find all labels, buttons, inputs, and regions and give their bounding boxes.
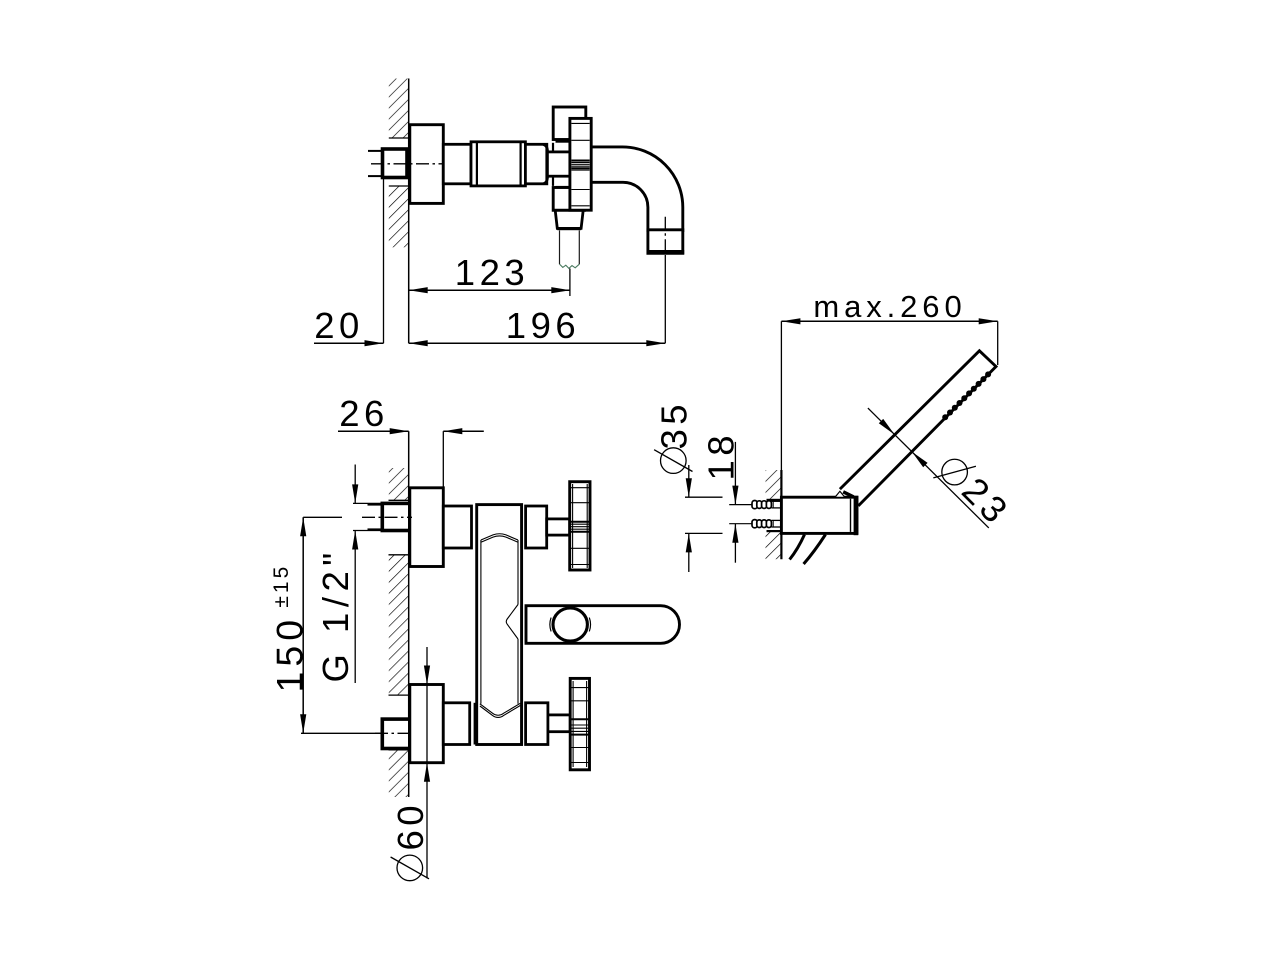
screw bottom bbox=[729, 520, 782, 528]
disc detail lines bbox=[571, 123, 589, 205]
dimension D35 lines bbox=[688, 465, 690, 497]
wall hole boundary lines bbox=[389, 137, 409, 139]
svg-text:18: 18 bbox=[701, 431, 742, 481]
bottom left connector bbox=[443, 703, 469, 745]
dimension max.260 line bbox=[781, 320, 997, 322]
dimension D60 text bbox=[391, 855, 429, 881]
screw top bbox=[729, 501, 782, 509]
body section A bbox=[443, 144, 471, 184]
tube break line bbox=[560, 264, 580, 268]
svg-text:23: 23 bbox=[954, 470, 1018, 534]
G 1/2 leader upper bbox=[354, 465, 356, 504]
bottom valve stem bbox=[548, 715, 570, 732]
top inlet centerline bbox=[362, 516, 412, 518]
top left connector bbox=[443, 506, 471, 548]
holder block bbox=[781, 497, 857, 533]
dimension 123 line bbox=[409, 289, 571, 291]
wall hatch band lower bbox=[766, 531, 782, 559]
dimension 18 lines bbox=[734, 442, 736, 505]
handshower cylinder bbox=[840, 351, 996, 506]
top union nut bbox=[382, 503, 410, 530]
spout end cap bbox=[648, 230, 683, 254]
dimension 26 bbox=[338, 430, 409, 432]
dimension 20 line bbox=[314, 342, 384, 344]
handle front disc bbox=[570, 118, 591, 210]
diverter pull tube bbox=[559, 230, 561, 264]
top valve stem bbox=[547, 519, 570, 535]
svg-text:20: 20 bbox=[314, 305, 364, 346]
shadow band upper bbox=[556, 139, 570, 142]
wall surface line bbox=[408, 431, 410, 797]
svg-text:max.260: max.260 bbox=[813, 289, 966, 324]
body section C bbox=[525, 144, 546, 184]
shadow band lower bbox=[556, 186, 570, 189]
wall hole boundary lines bbox=[767, 499, 782, 501]
wall surface line bbox=[408, 79, 410, 344]
diverter extension line bbox=[569, 269, 571, 297]
dimension D35 text bbox=[654, 448, 692, 474]
neck lines bbox=[552, 143, 554, 152]
svg-text:60: 60 bbox=[390, 801, 431, 851]
svg-text:196: 196 bbox=[506, 305, 580, 346]
faucet centerline bbox=[371, 163, 444, 165]
extension line from union nut bbox=[383, 178, 385, 344]
svg-text:G 1/2": G 1/2" bbox=[315, 547, 356, 682]
bottom handle bar bbox=[570, 678, 589, 769]
spray nozzle dots bbox=[942, 371, 991, 420]
wall flange bbox=[410, 125, 444, 204]
top handle bar bbox=[570, 482, 590, 570]
spout centerline bbox=[664, 217, 666, 255]
wall hatch band 2 bbox=[389, 555, 409, 695]
svg-text:123: 123 bbox=[455, 252, 529, 293]
max.260 extension lines bbox=[780, 321, 782, 470]
lever knob circle bbox=[553, 608, 587, 641]
lever ring thin circle bbox=[550, 618, 591, 632]
handshower end cap peek triangle bbox=[835, 491, 844, 497]
junction wedge bbox=[843, 492, 853, 497]
bottom inlet centerline bbox=[375, 732, 412, 734]
body inner contour bbox=[480, 534, 521, 718]
top wall flange bbox=[410, 488, 444, 567]
wall hatch band 1 bbox=[389, 468, 409, 500]
wall hatch upper band bbox=[389, 79, 409, 139]
body bbox=[477, 505, 522, 745]
svg-text:150±15: 150±15 bbox=[269, 564, 311, 693]
spout extension line bbox=[664, 255, 666, 343]
union nut bbox=[383, 149, 408, 178]
wall hatch band 3 bbox=[389, 750, 409, 797]
hose outer arc bbox=[790, 535, 805, 560]
top inlet pipe stub bbox=[368, 504, 384, 506]
inlet pipe stub bbox=[368, 150, 383, 152]
bottom wall flange bbox=[410, 685, 444, 763]
dimension 150 line bbox=[302, 517, 304, 733]
handle bottom arm bbox=[553, 188, 584, 211]
hose inner arc bbox=[804, 535, 826, 565]
wall hatch lower band bbox=[389, 186, 409, 247]
dimension 150 extension lines bbox=[303, 516, 342, 518]
holder front face double line bbox=[854, 496, 859, 535]
body section B (cartridge) bbox=[471, 142, 525, 186]
valve hub bbox=[547, 152, 570, 176]
top right connector bbox=[526, 506, 547, 548]
spout bbox=[591, 147, 683, 231]
svg-text:26: 26 bbox=[339, 393, 389, 434]
bonnet fillets bbox=[543, 144, 548, 152]
wall hatch band upper bbox=[766, 470, 782, 500]
dimension 196 line bbox=[409, 342, 666, 344]
bottom union nut bbox=[382, 719, 410, 748]
diverter housing bbox=[555, 210, 583, 228]
wall hole boundary lines bbox=[389, 500, 409, 750]
dimension D23 text bbox=[932, 447, 1018, 533]
wall surface line bbox=[780, 470, 782, 559]
svg-text:35: 35 bbox=[654, 400, 695, 450]
lever port ring bbox=[520, 606, 522, 643]
G 1/2 extension lines bbox=[353, 502, 384, 504]
dimension D60 line bbox=[426, 647, 428, 685]
G 1/2 leader lower with underline bbox=[354, 531, 356, 684]
handle top arm bbox=[553, 107, 586, 140]
mixer lever bbox=[526, 606, 680, 644]
bottom right connector bbox=[526, 703, 548, 745]
dimension D23 leader bbox=[868, 408, 989, 528]
